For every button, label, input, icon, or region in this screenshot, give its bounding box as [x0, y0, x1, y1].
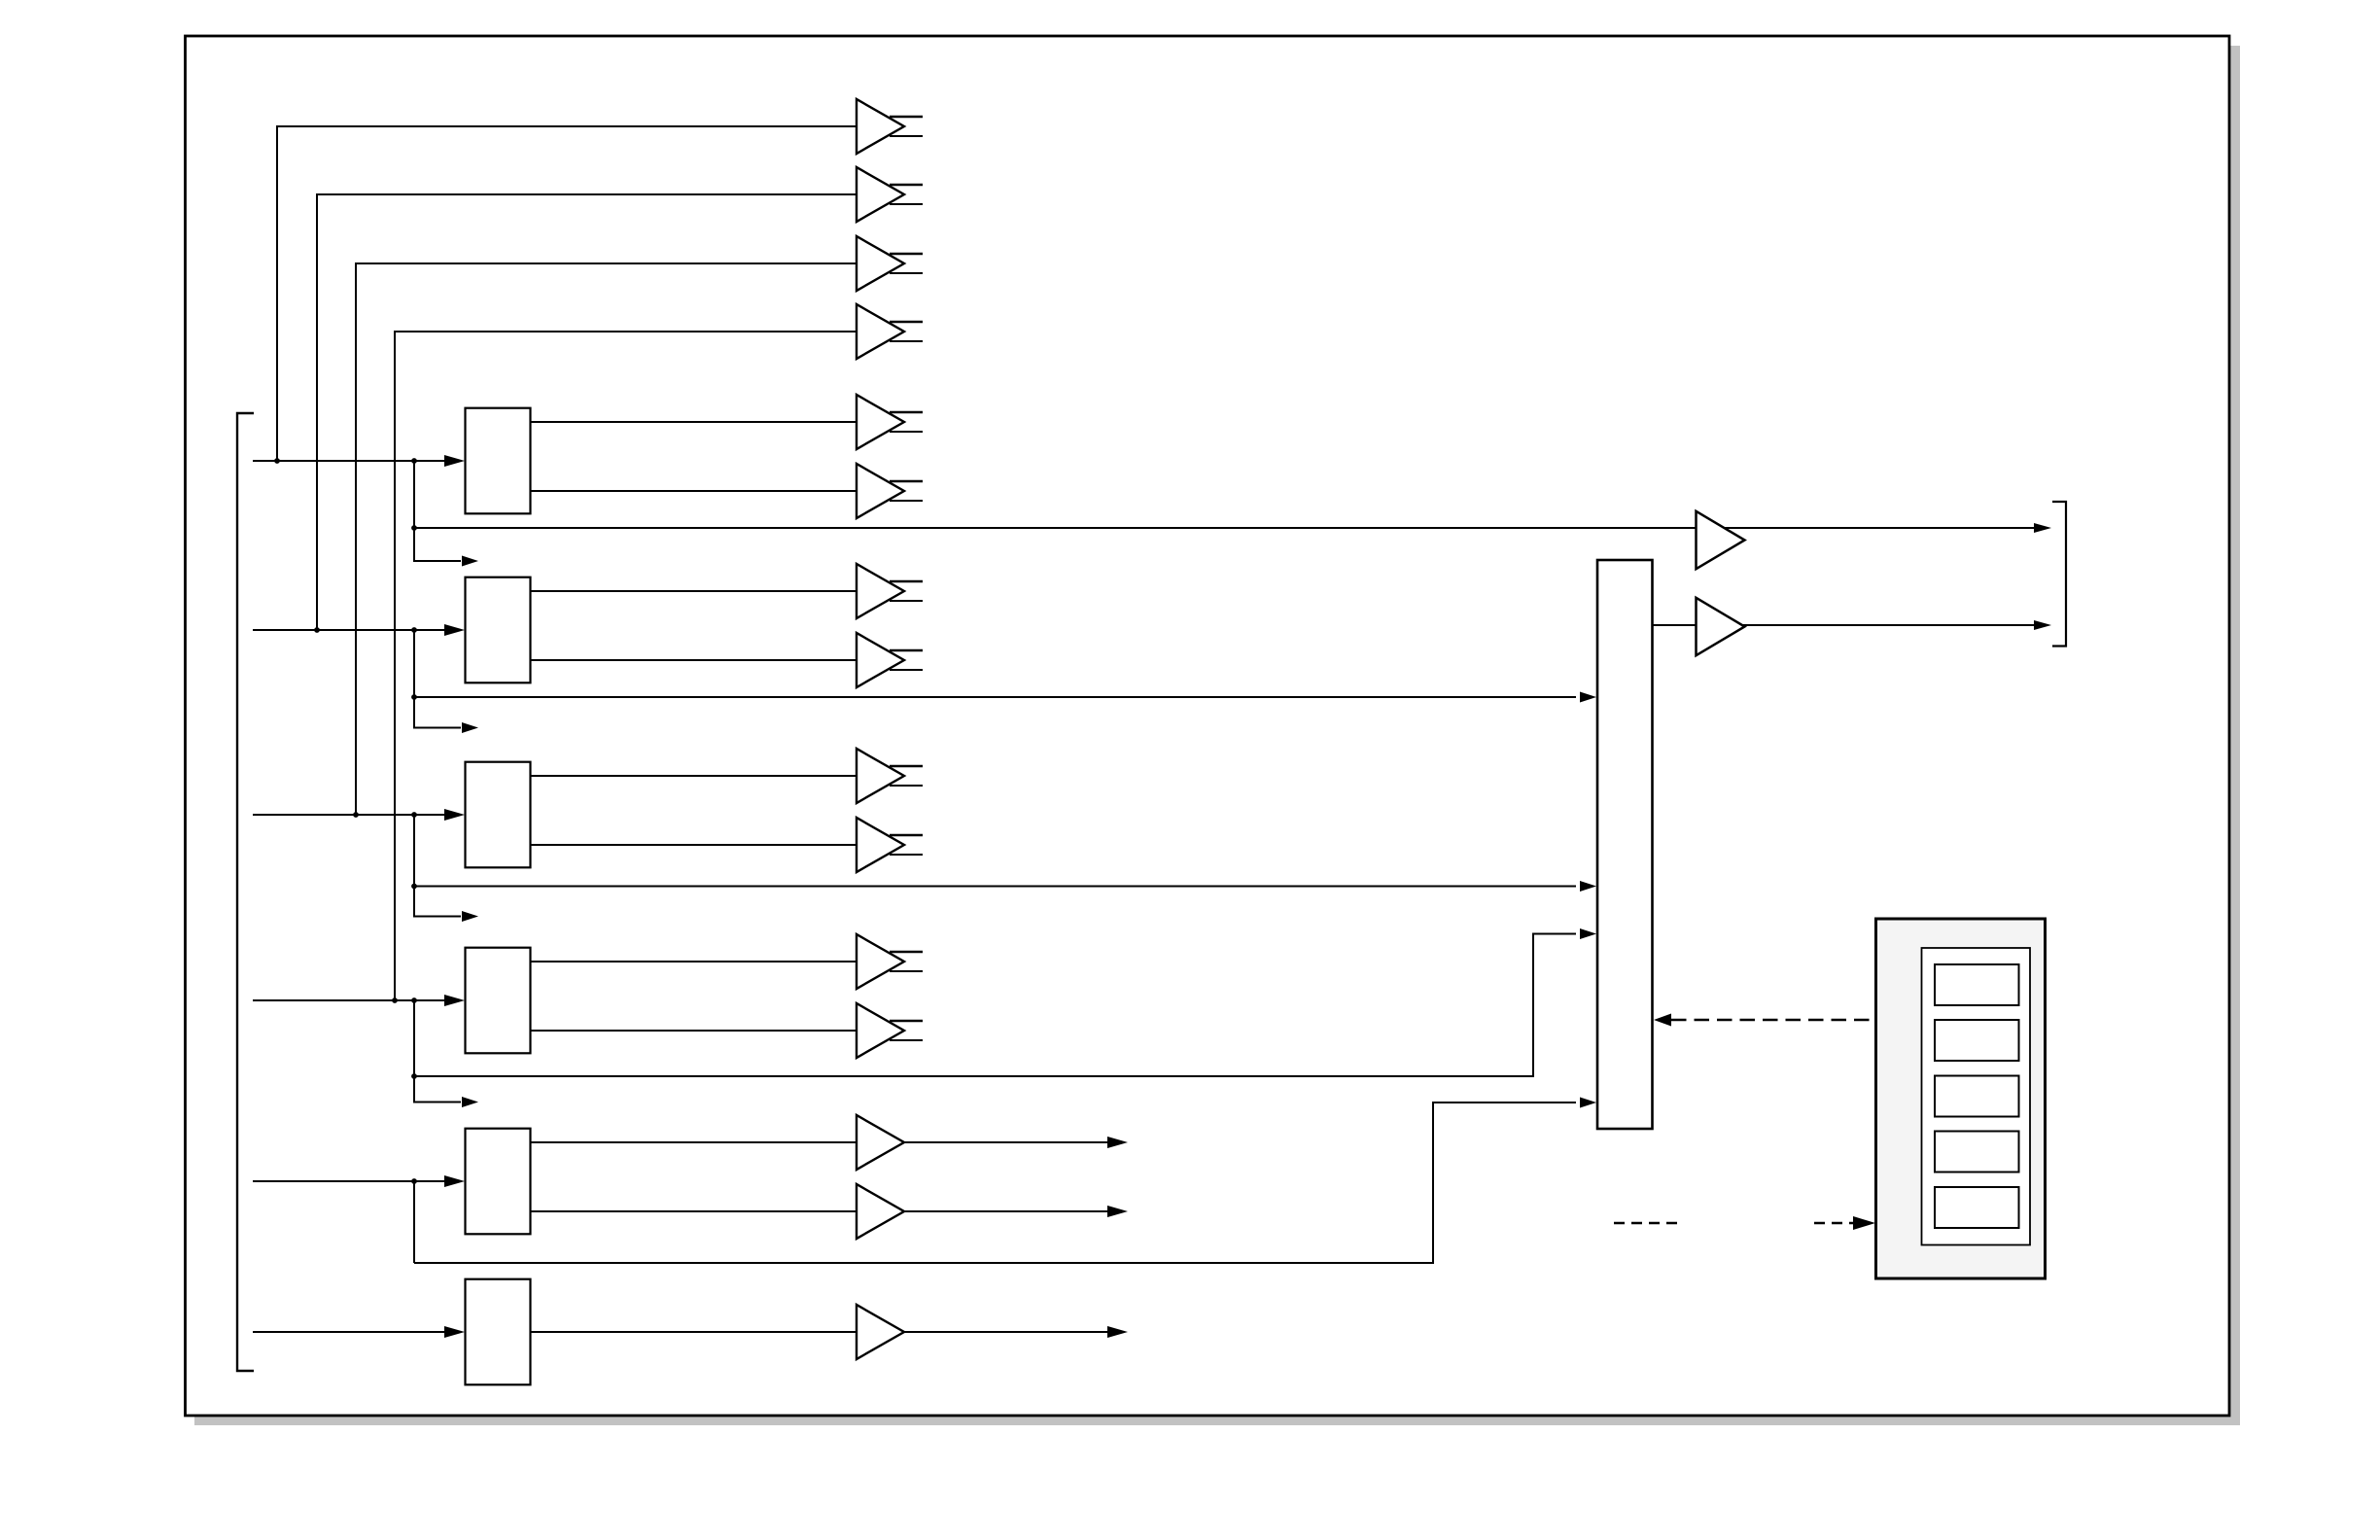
wire block B4 outputs	[531, 962, 857, 1031]
buffer U5	[857, 395, 923, 449]
wire input row 5	[253, 1175, 465, 1187]
buffer U13	[857, 1115, 904, 1170]
wire section2 long line	[414, 692, 1596, 703]
wire section3 long line	[414, 881, 1596, 892]
block B1	[466, 408, 531, 514]
input bus bracket	[237, 413, 254, 1371]
wire block B1 outputs	[531, 422, 857, 491]
node section 2 tap	[411, 627, 478, 733]
node section 4 tap	[411, 997, 478, 1107]
block B2	[466, 577, 531, 683]
wire block B6 output	[531, 1326, 1129, 1338]
node section 1 tap	[411, 458, 478, 566]
buffer U1	[857, 99, 923, 154]
wire section5 long line	[414, 1098, 1596, 1264]
wire input row 1	[253, 455, 465, 467]
wire block B3 outputs	[531, 776, 857, 845]
wire feed to top buffer 3	[353, 263, 857, 818]
block B3	[466, 762, 531, 868]
wire dashed control to dip-switch	[1614, 1216, 1875, 1230]
output bus bracket	[2052, 502, 2066, 647]
buffer U11	[857, 934, 923, 989]
buffer U2	[857, 167, 923, 222]
buffer U9	[857, 749, 923, 803]
buffer U6	[857, 464, 923, 518]
wire block B5 output 1	[531, 1137, 1129, 1148]
wire block B2 outputs	[531, 591, 857, 660]
buffer U4	[857, 304, 923, 359]
block B5	[466, 1129, 531, 1235]
node section 5 tap	[411, 1178, 417, 1263]
buffer U7	[857, 564, 923, 618]
dip-switch S1	[1876, 919, 2046, 1278]
wire mux output	[1653, 620, 2052, 630]
wire block B5 output 2	[531, 1206, 1129, 1217]
mux U16	[1597, 560, 1653, 1129]
buffer U14	[857, 1184, 904, 1239]
buffer U8	[857, 633, 923, 687]
wire section4 long line	[414, 928, 1596, 1076]
buffer U3	[857, 236, 923, 291]
block B6	[466, 1279, 531, 1385]
wire section1 long line	[414, 523, 2051, 533]
wire input row 2	[253, 624, 465, 636]
wire feed to top buffer 2	[314, 194, 857, 633]
wire input row 4	[253, 995, 465, 1006]
wire input row 6	[253, 1326, 465, 1338]
wire input row 3	[253, 809, 465, 821]
buffer U18	[1697, 598, 1745, 655]
buffer U15	[857, 1305, 904, 1359]
buffer U12	[857, 1003, 923, 1058]
block B4	[466, 948, 531, 1054]
wire feed to top buffer 4	[392, 332, 857, 1003]
buffer U10	[857, 818, 923, 872]
wire feed to top buffer 1	[274, 126, 857, 464]
node section 3 tap	[411, 812, 478, 922]
wire dashed control to mux	[1654, 1014, 1875, 1027]
buffer U17	[1697, 511, 1745, 569]
